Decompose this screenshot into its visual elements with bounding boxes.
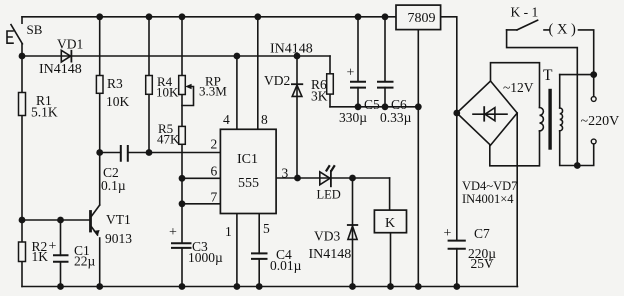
wire R3 column [99,17,101,76]
wire K-1 loop [507,30,578,166]
resistor R4 [146,76,153,95]
resistor R6 [327,74,334,94]
wire bridge top to secondary [491,63,540,108]
potentiometer RP column [181,17,183,243]
node rail1-R4 [146,13,153,20]
wire bottom rail [22,286,518,288]
diode VD3 [348,178,358,287]
svg-text:LED: LED [317,188,341,202]
node gnd-C1 [57,283,64,290]
svg-text:K - 1: K - 1 [511,5,539,20]
regulator 7809 box [396,5,441,30]
bridge rectifier VD4-VD7 [457,81,517,145]
wire bridge right to ground [516,113,518,287]
transformer secondary coil [540,108,544,131]
node C5 bottom [355,103,362,110]
svg-text:22µ: 22µ [74,254,96,269]
svg-text:9013: 9013 [105,231,132,246]
svg-text:~220V: ~220V [581,114,620,129]
svg-text:+: + [444,226,452,241]
resistor R2 [19,242,26,262]
svg-text:~12V: ~12V [503,80,534,95]
svg-text:1000µ: 1000µ [188,250,223,265]
transistor VT1 emitter arrow [94,231,99,235]
node bridge plus [453,110,460,117]
svg-text:VD4~VD7: VD4~VD7 [462,179,517,193]
wire second rail [22,55,330,57]
wire pin8 [257,17,259,130]
node base-left [19,217,26,224]
svg-text:0.1µ: 0.1µ [101,178,126,193]
transistor VT1 [91,153,100,287]
node rail1-R3 [96,13,103,20]
node pin6 [179,175,186,182]
node pin3 [294,175,301,182]
svg-text:+: + [347,66,355,81]
terminal circle top [591,97,596,102]
svg-text:5: 5 [263,221,270,236]
svg-text:0.33µ: 0.33µ [380,110,412,125]
relay contact K-1 [507,20,538,30]
potentiometer RP arrow [187,85,194,89]
svg-text:5.1K: 5.1K [31,105,58,120]
node X top [590,71,597,78]
wire base node [22,219,91,221]
svg-text:555: 555 [238,176,259,191]
wire 7809 output [441,17,457,241]
wire primary bottom [560,131,594,166]
resistor R3 [96,76,103,94]
svg-text:10K: 10K [156,85,179,100]
wire pin3 [276,177,297,179]
svg-text:4: 4 [223,112,230,127]
svg-text:0.01µ: 0.01µ [270,258,302,273]
wire pin2 [149,152,220,154]
node rail1-C6 [382,13,389,20]
node gnd-VD3 [349,283,356,290]
resistor R5 [179,126,186,144]
wire pin4 [236,56,238,129]
node gnd-C3 [179,283,186,290]
wire primary top [559,75,561,108]
svg-text:6: 6 [211,164,218,179]
wire top rail [22,16,396,18]
svg-text:+: + [49,239,57,254]
wire pin7 [182,203,220,205]
wire X to primary [560,74,594,76]
svg-text:7809: 7809 [408,11,436,26]
node rail2-VD2 [294,53,301,60]
diode VD1 [61,50,71,63]
switch SB [7,17,22,56]
relay K lead [390,233,392,287]
svg-text:10K: 10K [106,94,130,109]
node rail2-pin4 [234,53,241,60]
node 7809gnd-filter [415,103,422,110]
capacitor C6 [378,17,393,107]
node LED-K [349,175,356,182]
svg-text:R3: R3 [107,76,123,91]
svg-text:IN4148: IN4148 [309,247,352,262]
svg-text:VD2: VD2 [264,73,290,88]
transformer core [548,91,551,149]
svg-text:VD1: VD1 [57,37,83,52]
svg-text:+: + [169,225,177,240]
svg-text:2: 2 [211,137,218,152]
svg-text:47K: 47K [157,132,180,147]
potentiometer RP body [179,76,186,95]
node SB-rail2 [19,53,26,60]
LED [298,166,390,186]
svg-text:IN4001×4: IN4001×4 [462,192,514,206]
capacitor C2 [100,146,149,161]
capacitor C5 [351,17,365,107]
terminal circle bottom [591,139,596,144]
svg-text:C7: C7 [474,226,490,241]
wire K drop [389,178,391,210]
svg-text:IN4148: IN4148 [270,42,313,57]
resistor R1 [19,93,26,116]
wire pin5 and capacitor C4 [252,214,267,287]
capacitor C7 [449,241,465,287]
node rail1-RP [179,13,186,20]
node gnd-K [387,283,394,290]
svg-text:SB: SB [27,22,43,37]
potentiometer RP wiper [182,87,194,106]
svg-text:IN4148: IN4148 [39,62,82,77]
node rail1-C5 [355,13,362,20]
node C6 bottom [382,103,389,110]
node gnd-C7 [453,283,460,290]
svg-text:1: 1 [225,224,232,239]
capacitor C1 [54,220,68,287]
svg-text:VT1: VT1 [106,212,131,227]
wire pin1 [236,214,238,287]
node primary bottom [574,162,581,169]
node C2 right [146,149,153,156]
svg-text:K: K [385,216,395,231]
relay K box [374,210,406,233]
diode VD2 [292,56,302,178]
regulator 7809 ground pin [417,30,419,287]
wire pin6 [182,177,220,179]
node rail1-pin8 [254,13,261,20]
wire left column [21,56,23,287]
svg-text:25V: 25V [471,256,495,271]
node gnd-VT1 [96,283,103,290]
transformer primary coil [560,108,563,131]
node gnd-pin1 [234,283,241,290]
svg-text:3.3M: 3.3M [199,84,227,99]
connector X wire right [544,30,594,97]
svg-text:8: 8 [261,112,268,127]
IC1 555 box [220,129,276,213]
svg-text:( X ): ( X ) [549,22,577,38]
svg-text:7: 7 [211,190,218,205]
node gnd-7809 [415,283,422,290]
capacitor C3 [172,243,191,286]
wire R4 column [148,17,150,153]
node base-C1 [57,217,64,224]
svg-text:3: 3 [282,166,289,181]
wire secondary bottom [490,131,540,166]
svg-text:1K: 1K [32,249,49,264]
node C2 left [96,149,103,156]
svg-text:T: T [543,67,553,84]
svg-text:VD3: VD3 [314,229,340,244]
node pin7 [179,200,186,207]
node gnd-C4 [256,283,263,290]
svg-text:3K: 3K [311,89,328,104]
svg-text:IC1: IC1 [237,152,258,167]
svg-text:330µ: 330µ [339,110,367,125]
wire C5 C6 bottom [330,106,418,108]
resistor R6 leads [329,56,331,107]
